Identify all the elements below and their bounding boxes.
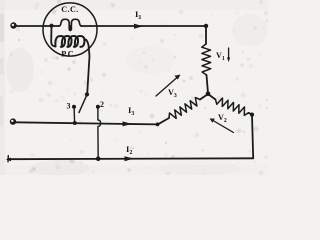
contact dot 2 [96, 105, 100, 109]
node J2 (stub 2 on line 2) [96, 157, 101, 162]
wire line 2 rail [8, 157, 253, 160]
wire stub 2 with hop over line 3 [98, 108, 101, 159]
svg-text:2: 2 [100, 100, 104, 109]
arrow I2 on line 2 [125, 156, 135, 161]
wire V1 to star point [207, 75, 209, 94]
arrow I1 on line 1 [134, 24, 143, 29]
node corner top-right [204, 24, 208, 28]
svg-text:3: 3 [67, 102, 71, 111]
terminal T3 (line 3, left) [10, 118, 16, 124]
node J3b (stub 3 on line 3) [73, 121, 77, 125]
node corner right [250, 113, 254, 117]
paper background mottling [0, 0, 268, 175]
potential coil P.C. loops [55, 36, 84, 47]
wattmeter circle W [43, 3, 97, 56]
node star point N [206, 92, 211, 97]
svg-text:P.C.: P.C. [61, 50, 76, 59]
node J3 (line3 meets V3) [156, 123, 160, 127]
resistor V2 [216, 98, 249, 115]
wire P.C. left lead [51, 26, 55, 46]
arrow V2 direction (up-left) [213, 121, 234, 133]
wire top rail left segment [16, 25, 59, 27]
node switch pivot [85, 92, 89, 96]
wire P.C. right lead down [84, 39, 90, 92]
wire stub 3 [73, 108, 76, 123]
line 2 left end mark [6, 158, 11, 162]
arrow I3 on line 3 [123, 121, 133, 126]
wire corner down to R V1 [205, 26, 207, 44]
switch arm (open) [79, 96, 87, 113]
arrow V3 direction (up-right) [156, 78, 177, 97]
current coil C.C. symbol [69, 25, 71, 30]
wire R V3 to line 3 [158, 118, 169, 124]
resistor V1 [202, 44, 211, 75]
svg-text:C.C.: C.C. [61, 5, 79, 14]
contact dot 3 [72, 105, 76, 109]
arrow V1 direction (down) [228, 48, 230, 59]
resistor V3 [169, 98, 200, 119]
terminal T1 (line 1, left) [10, 22, 16, 28]
wire star to R V2 [208, 94, 216, 100]
wire top rail right segment [81, 25, 206, 27]
wire star to R V3 [200, 94, 208, 100]
wire right side down [249, 113, 254, 159]
node J1 (P.C. tap on line 1) [49, 24, 53, 28]
wire line 3 rail [15, 122, 158, 124]
